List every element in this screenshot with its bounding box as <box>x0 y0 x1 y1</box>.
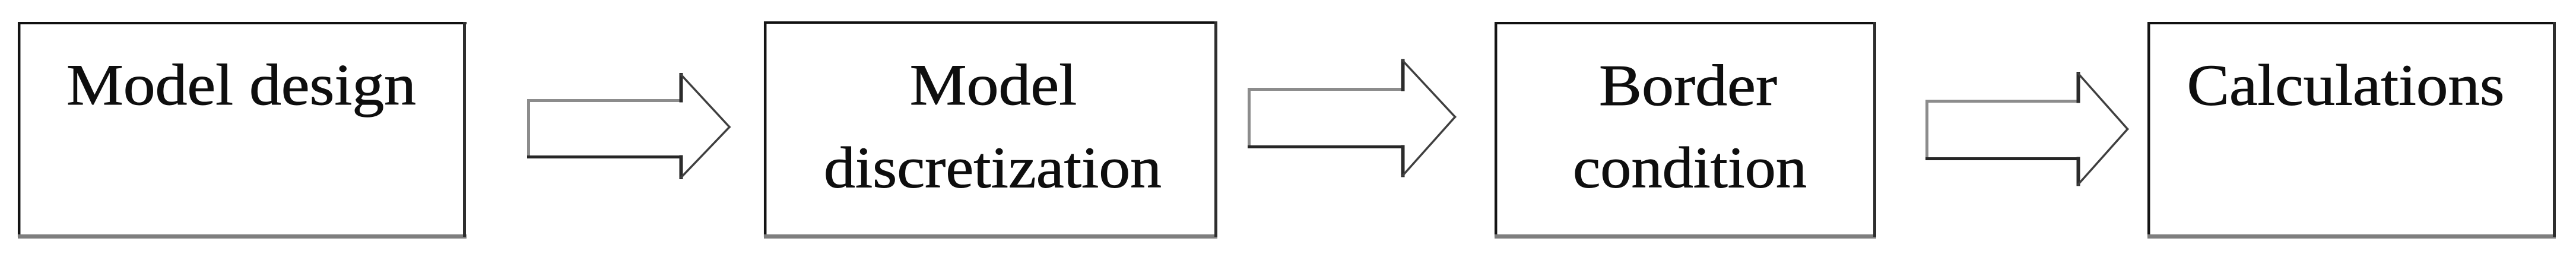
box 2: Model discretization <box>764 21 1217 237</box>
arrow 3 <box>1927 74 2128 185</box>
svg-text:Model design: Model design <box>66 53 416 117</box>
box 4: Calculations <box>2147 22 2556 237</box>
svg-text:condition: condition <box>1573 136 1807 201</box>
arrow 1 <box>529 75 730 177</box>
svg-text:Model: Model <box>910 53 1077 117</box>
svg-text:Calculations: Calculations <box>2187 53 2505 118</box>
box 3: Border condition <box>1495 22 1876 237</box>
arrow 2 <box>1249 61 1455 176</box>
svg-text:discretization: discretization <box>824 136 1162 201</box>
box 1: Model design <box>18 22 467 237</box>
svg-text:Border: Border <box>1599 53 1777 118</box>
